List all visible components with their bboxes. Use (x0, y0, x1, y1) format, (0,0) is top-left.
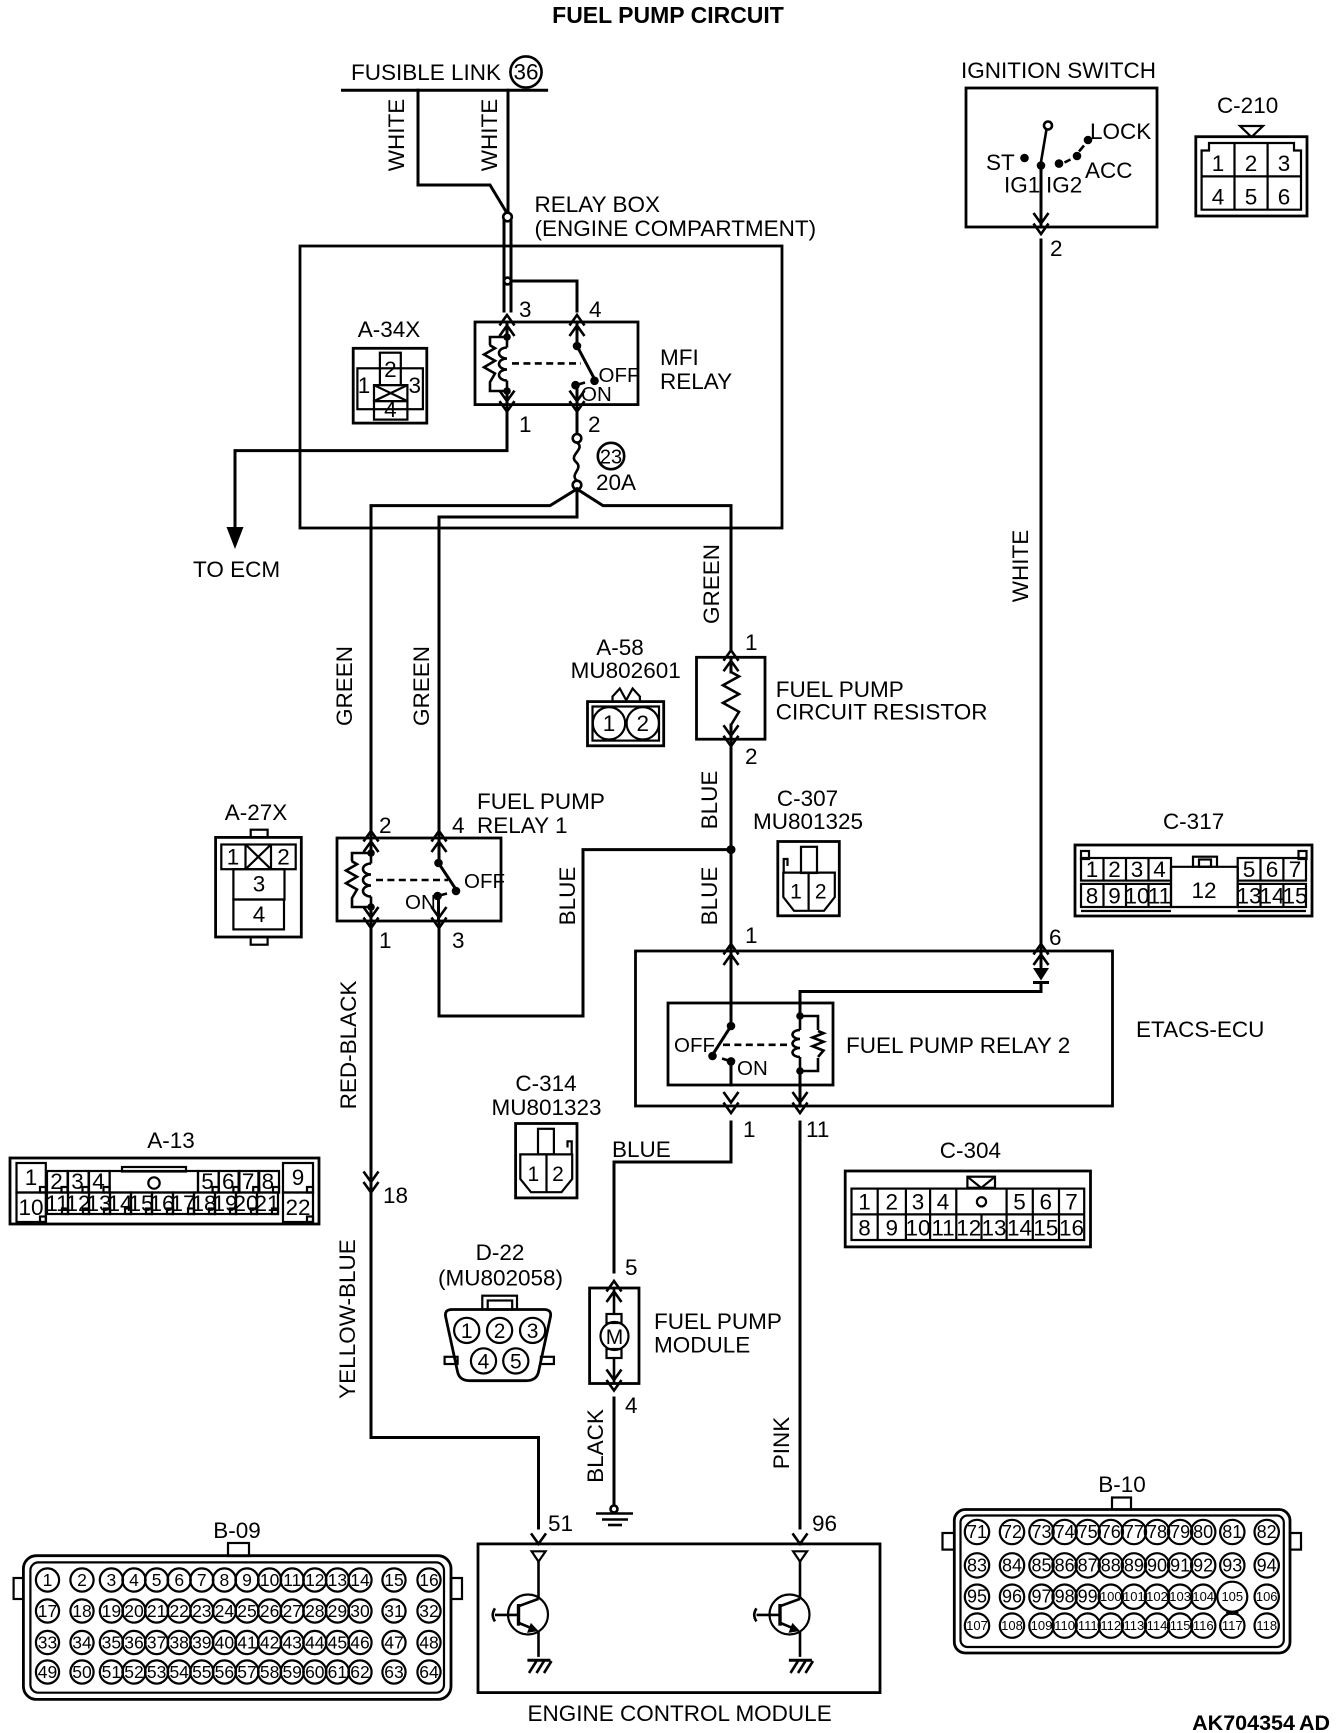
svg-text:1: 1 (745, 630, 758, 655)
ignition contact IG2 (1055, 159, 1064, 168)
svg-text:4: 4 (625, 1393, 638, 1418)
relay2 switch tick (722, 1059, 731, 1062)
MFI pin 3 chevrons (500, 315, 515, 336)
svg-text:32: 32 (419, 1601, 438, 1621)
svg-text:51: 51 (548, 1511, 573, 1536)
svg-text:2: 2 (588, 412, 601, 437)
svg-text:55: 55 (192, 1662, 211, 1682)
svg-text:2: 2 (277, 845, 290, 870)
svg-text:15: 15 (384, 1570, 403, 1590)
svg-text:79: 79 (1170, 1522, 1190, 1542)
svg-text:C-210: C-210 (1217, 93, 1278, 118)
MFI pin 1 chevrons (500, 391, 515, 412)
svg-text:AK704354AD: AK704354AD (1192, 1711, 1330, 1733)
svg-text:12: 12 (956, 1216, 981, 1241)
svg-text:A-27X: A-27X (225, 800, 288, 825)
ignition contact LOCK (1084, 136, 1093, 145)
svg-text:2: 2 (886, 1190, 899, 1215)
svg-text:3: 3 (1131, 857, 1144, 882)
svg-text:BLUE: BLUE (612, 1137, 671, 1162)
svg-text:13: 13 (1236, 884, 1261, 909)
svg-text:45: 45 (328, 1633, 347, 1653)
svg-text:19: 19 (102, 1601, 121, 1621)
MFI switch tick (576, 383, 586, 386)
svg-text:LOCK: LOCK (1090, 119, 1151, 144)
svg-text:2: 2 (1050, 236, 1063, 261)
svg-text:50: 50 (72, 1662, 92, 1682)
svg-text:54: 54 (169, 1662, 189, 1682)
relay1 resistor (352, 853, 371, 861)
svg-text:90: 90 (1147, 1555, 1167, 1575)
svg-text:47: 47 (384, 1633, 403, 1653)
svg-text:99: 99 (1078, 1587, 1098, 1607)
connector A-27X (216, 800, 302, 945)
svg-text:7: 7 (1289, 857, 1302, 882)
junction bullet on bus (504, 278, 511, 285)
svg-text:1: 1 (43, 1570, 53, 1590)
svg-text:17: 17 (38, 1601, 57, 1621)
svg-text:(ENGINE COMPARTMENT): (ENGINE COMPARTMENT) (535, 216, 817, 241)
relay1 box (337, 838, 501, 921)
svg-text:WHITE: WHITE (384, 99, 409, 172)
svg-text:24: 24 (215, 1601, 235, 1621)
svg-text:M: M (606, 1326, 624, 1349)
relay1 coil junction dots (367, 849, 375, 857)
svg-text:3: 3 (1278, 151, 1291, 176)
fuel pump circuit resistor box (697, 657, 766, 739)
connector C-304 (845, 1138, 1090, 1247)
svg-text:8: 8 (858, 1216, 871, 1241)
svg-text:FUEL PUMP RELAY 2: FUEL PUMP RELAY 2 (846, 1033, 1070, 1058)
relay2 switch ON contact dot (727, 1057, 736, 1066)
connector C-314 (491, 1071, 601, 1198)
svg-text:14: 14 (1007, 1216, 1032, 1241)
svg-text:34: 34 (72, 1633, 92, 1653)
svg-text:A-13: A-13 (147, 1128, 195, 1153)
svg-text:92: 92 (1193, 1555, 1213, 1575)
svg-text:OFF: OFF (674, 1034, 715, 1057)
relay1 pin 4 chevrons (432, 831, 447, 852)
svg-text:16: 16 (1059, 1216, 1084, 1241)
svg-text:MFI: MFI (660, 345, 699, 370)
svg-text:13: 13 (981, 1216, 1006, 1241)
svg-text:GREEN: GREEN (409, 646, 434, 726)
svg-text:MU801325: MU801325 (753, 809, 863, 834)
wire black to ground (613, 1398, 616, 1506)
wire yellow-blue to ECM (371, 1438, 539, 1529)
double-line bus into MFI relay pin 3 (503, 222, 506, 312)
svg-text:9: 9 (886, 1216, 899, 1241)
svg-text:1: 1 (227, 845, 240, 870)
relay2 dashed actuation line (723, 1044, 791, 1047)
TO ECM arrowhead (227, 527, 244, 549)
relay1 switch ON contact dot (433, 892, 442, 901)
svg-text:84: 84 (1002, 1555, 1022, 1575)
relay2 coil junction dots (796, 1012, 804, 1020)
svg-text:B-09: B-09 (213, 1518, 261, 1543)
svg-text:76: 76 (1101, 1522, 1121, 1542)
svg-text:94: 94 (1257, 1555, 1277, 1575)
ignition rotor circle (1044, 122, 1052, 130)
svg-text:OFF: OFF (464, 870, 505, 893)
MFI pin 4 chevrons (570, 315, 585, 336)
svg-text:IGNITION SWITCH: IGNITION SWITCH (961, 58, 1156, 83)
svg-text:6: 6 (1278, 185, 1291, 210)
svg-text:7: 7 (1065, 1190, 1078, 1215)
svg-text:109: 109 (1031, 1618, 1053, 1633)
svg-text:35: 35 (102, 1633, 121, 1653)
svg-text:FUEL PUMP: FUEL PUMP (776, 677, 904, 702)
svg-text:56: 56 (215, 1662, 234, 1682)
svg-text:MODULE: MODULE (654, 1333, 750, 1358)
svg-text:10: 10 (905, 1216, 930, 1241)
svg-text:11: 11 (283, 1570, 301, 1590)
MFI switch common wire (576, 322, 579, 346)
svg-text:83: 83 (967, 1555, 987, 1575)
svg-text:2: 2 (637, 711, 650, 736)
relay2 coil wire to pin 11 (799, 1071, 802, 1106)
svg-text:4: 4 (589, 297, 602, 322)
svg-text:57: 57 (237, 1662, 256, 1682)
ECM pin 51 chevron (531, 1533, 546, 1544)
svg-text:(MU802058): (MU802058) (438, 1266, 563, 1291)
relay1 coil (370, 853, 373, 864)
connector A-13 (10, 1128, 319, 1224)
svg-text:5: 5 (152, 1570, 162, 1590)
svg-text:FUEL PUMP: FUEL PUMP (477, 789, 605, 814)
connector bullet at relay box feed (503, 213, 512, 222)
svg-text:5: 5 (1013, 1190, 1026, 1215)
MFI switch arm (577, 346, 595, 379)
engine control module box (478, 1544, 880, 1693)
svg-text:10: 10 (1124, 884, 1149, 909)
svg-text:61: 61 (328, 1662, 347, 1682)
fuse terminal bullet bottom (573, 481, 582, 490)
svg-text:78: 78 (1147, 1522, 1167, 1542)
svg-text:97: 97 (1031, 1587, 1051, 1607)
svg-text:15: 15 (1033, 1216, 1058, 1241)
fuel pump circuit resistor zigzag (730, 657, 733, 672)
svg-text:ON: ON (405, 891, 436, 914)
wire relay1 pin1 red-black (370, 921, 373, 1438)
svg-text:117: 117 (1222, 1618, 1243, 1633)
relay2 pin1 wire inside (730, 1061, 733, 1085)
svg-text:26: 26 (260, 1601, 279, 1621)
relay2 switch OFF contact dot (708, 1052, 717, 1061)
ignition contact ST (1020, 154, 1029, 163)
svg-text:1: 1 (379, 928, 392, 953)
svg-text:2: 2 (745, 744, 758, 769)
svg-text:6: 6 (1266, 857, 1279, 882)
svg-text:96: 96 (812, 1511, 837, 1536)
svg-text:4: 4 (129, 1570, 139, 1590)
wire Y-split middle branch (439, 489, 577, 838)
connector A-34X (353, 317, 427, 423)
svg-text:3: 3 (107, 1570, 117, 1590)
svg-text:1: 1 (790, 881, 802, 904)
svg-text:2: 2 (815, 881, 827, 904)
svg-text:4: 4 (1153, 857, 1166, 882)
svg-text:WHITE: WHITE (477, 99, 502, 172)
motor wire top (613, 1288, 616, 1314)
svg-text:RED-BLACK: RED-BLACK (336, 981, 361, 1110)
svg-text:1: 1 (745, 923, 758, 948)
relay1 switch common wire (438, 838, 441, 863)
svg-text:YELLOW-BLUE: YELLOW-BLUE (335, 1239, 360, 1399)
svg-text:29: 29 (328, 1601, 347, 1621)
svg-text:1: 1 (461, 1320, 473, 1343)
svg-text:16: 16 (419, 1570, 438, 1590)
svg-text:MU802601: MU802601 (571, 658, 681, 683)
svg-text:6: 6 (1040, 1190, 1053, 1215)
svg-text:80: 80 (1193, 1522, 1213, 1542)
svg-text:1: 1 (1086, 857, 1099, 882)
svg-text:102: 102 (1146, 1589, 1168, 1604)
svg-text:18: 18 (383, 1183, 408, 1208)
ETACS pin 1 out chevrons (724, 1092, 739, 1113)
ignition detent tick 1 (1079, 146, 1084, 152)
svg-text:36: 36 (513, 60, 538, 85)
svg-text:21: 21 (147, 1601, 166, 1621)
MFI dashed actuation line (512, 362, 581, 365)
svg-text:108: 108 (1001, 1618, 1023, 1633)
ETACS pin 6 chevrons (1034, 944, 1049, 965)
ignition pin 2 chevrons (1034, 213, 1049, 234)
svg-text:37: 37 (147, 1633, 166, 1653)
svg-text:A-34X: A-34X (358, 317, 421, 342)
svg-text:GREEN: GREEN (332, 646, 357, 726)
fuel pump module box (590, 1288, 639, 1384)
svg-text:110: 110 (1054, 1618, 1075, 1633)
svg-text:14: 14 (1259, 884, 1284, 909)
svg-text:6: 6 (174, 1570, 184, 1590)
svg-text:100: 100 (1100, 1589, 1122, 1604)
MFI switch ON contact dot (571, 381, 580, 390)
relay2 switch arm (714, 1026, 731, 1053)
connector D-22 (438, 1240, 563, 1381)
svg-text:5: 5 (625, 1255, 638, 1280)
svg-text:31: 31 (384, 1601, 403, 1621)
svg-text:10: 10 (260, 1570, 280, 1590)
svg-text:36: 36 (124, 1633, 143, 1653)
ETACS pin 11 chevrons (793, 1092, 808, 1113)
svg-text:96: 96 (1002, 1587, 1022, 1607)
svg-text:D-22: D-22 (476, 1240, 525, 1265)
svg-text:BLUE: BLUE (555, 867, 580, 926)
svg-text:104: 104 (1192, 1589, 1214, 1604)
svg-text:3: 3 (527, 1320, 539, 1343)
relay1 coil wire (370, 838, 373, 853)
svg-text:86: 86 (1055, 1555, 1075, 1575)
module pin 4 chevrons (607, 1370, 622, 1391)
svg-text:89: 89 (1124, 1555, 1144, 1575)
transistor Q2 (754, 1551, 813, 1673)
svg-text:40: 40 (215, 1633, 235, 1653)
svg-text:4: 4 (937, 1190, 950, 1215)
svg-text:111: 111 (1078, 1618, 1098, 1633)
connector A-58 (571, 635, 681, 746)
svg-text:WHITE: WHITE (1008, 530, 1033, 603)
svg-text:105: 105 (1221, 1589, 1243, 1604)
svg-text:1: 1 (603, 711, 616, 736)
relay box (engine compartment) outline (300, 246, 782, 528)
svg-text:IG1: IG1 (1004, 173, 1040, 198)
svg-text:23: 23 (192, 1601, 211, 1621)
svg-text:46: 46 (350, 1633, 369, 1653)
relay1 pin 1 chevrons (364, 907, 379, 928)
svg-text:82: 82 (1257, 1522, 1277, 1542)
wire branch to MFI pin 4 (511, 281, 577, 311)
MFI relay resistor (490, 337, 507, 345)
svg-text:2: 2 (552, 1163, 564, 1186)
svg-text:4: 4 (478, 1350, 490, 1373)
MFI coil junction dots (503, 333, 511, 341)
wire white ignition to etacs (1040, 240, 1043, 951)
svg-text:52: 52 (124, 1662, 143, 1682)
svg-text:9: 9 (1108, 884, 1121, 909)
svg-text:14: 14 (350, 1570, 370, 1590)
svg-text:3: 3 (409, 373, 422, 398)
svg-text:39: 39 (192, 1633, 211, 1653)
svg-text:73: 73 (1031, 1522, 1051, 1542)
motor brush top (607, 1314, 622, 1323)
svg-text:20: 20 (124, 1601, 144, 1621)
svg-text:FUEL PUMP CIRCUIT: FUEL PUMP CIRCUIT (552, 2, 784, 28)
svg-text:59: 59 (282, 1662, 301, 1682)
svg-text:MU801323: MU801323 (491, 1095, 601, 1120)
svg-text:77: 77 (1124, 1522, 1144, 1542)
svg-text:TO ECM: TO ECM (193, 557, 280, 582)
svg-text:1: 1 (743, 1117, 756, 1142)
wire pink etacs pin11 to ECM (799, 1122, 802, 1528)
svg-text:RELAY 1: RELAY 1 (477, 813, 567, 838)
svg-text:62: 62 (350, 1662, 369, 1682)
relay1 pin 2 chevrons (364, 831, 379, 852)
MFI relay coil (506, 337, 509, 348)
svg-text:72: 72 (1002, 1522, 1022, 1542)
resistor pin 2 chevrons (724, 725, 739, 746)
svg-text:28: 28 (305, 1601, 324, 1621)
svg-text:1: 1 (528, 1163, 540, 1186)
ignition switch box (966, 88, 1157, 227)
svg-text:5: 5 (1245, 185, 1258, 210)
svg-text:74: 74 (1055, 1522, 1075, 1542)
svg-text:C-307: C-307 (777, 786, 838, 811)
ETACS-ECU box (636, 951, 1113, 1106)
svg-text:4: 4 (253, 902, 266, 927)
svg-text:112: 112 (1100, 1618, 1121, 1633)
svg-text:42: 42 (260, 1633, 279, 1653)
svg-text:93: 93 (1222, 1555, 1242, 1575)
svg-text:1: 1 (519, 412, 532, 437)
wire Y-split left branch (371, 489, 577, 838)
svg-text:49: 49 (38, 1662, 57, 1682)
wire MFI pin1 to ECM line (235, 405, 507, 532)
svg-text:ON: ON (581, 383, 612, 406)
svg-text:53: 53 (147, 1662, 166, 1682)
ignition output wire (1040, 166, 1043, 228)
svg-text:60: 60 (305, 1662, 325, 1682)
ignition detent tick 2 (1065, 160, 1071, 163)
wire white left vertical (418, 90, 508, 214)
relay1 pin 3 chevrons (432, 907, 447, 928)
wire Y-split right branch (577, 489, 731, 650)
motor brush bottom (607, 1349, 622, 1358)
junction dot blue node (727, 845, 736, 854)
svg-text:ENGINE CONTROL MODULE: ENGINE CONTROL MODULE (528, 1701, 832, 1726)
svg-text:58: 58 (260, 1662, 279, 1682)
connector B-10 (943, 1472, 1302, 1653)
svg-text:11: 11 (931, 1216, 954, 1241)
svg-text:21: 21 (254, 1191, 279, 1216)
svg-text:15: 15 (1282, 884, 1307, 909)
svg-text:8: 8 (220, 1570, 230, 1590)
svg-text:30: 30 (350, 1601, 370, 1621)
relay2 switch common dot (727, 1022, 736, 1031)
svg-text:106: 106 (1256, 1589, 1278, 1604)
svg-text:CIRCUIT RESISTOR: CIRCUIT RESISTOR (776, 700, 988, 725)
svg-text:B-10: B-10 (1098, 1472, 1146, 1497)
svg-text:63: 63 (384, 1662, 403, 1682)
svg-text:2: 2 (379, 813, 392, 838)
svg-text:11: 11 (1148, 884, 1171, 909)
svg-text:9: 9 (242, 1570, 252, 1590)
MFI switch common dot (573, 342, 582, 351)
MFI pin 2 chevrons (570, 391, 585, 412)
svg-text:C-314: C-314 (515, 1071, 576, 1096)
svg-text:RELAY BOX: RELAY BOX (535, 192, 660, 217)
module pin 5 chevrons (607, 1281, 622, 1302)
svg-text:38: 38 (169, 1633, 188, 1653)
svg-text:BLACK: BLACK (583, 1409, 608, 1483)
wire resistor to junction blue (730, 739, 733, 951)
svg-text:118: 118 (1256, 1618, 1277, 1633)
svg-text:ACC: ACC (1085, 158, 1133, 183)
connector C-307 (753, 786, 863, 916)
connector C-317 (1075, 809, 1312, 916)
svg-text:PINK: PINK (769, 1417, 794, 1470)
svg-text:101: 101 (1123, 1589, 1145, 1604)
svg-text:64: 64 (419, 1662, 439, 1682)
svg-text:A-58: A-58 (596, 635, 644, 660)
wire diode to relay2 coil (1040, 961, 1043, 968)
svg-text:88: 88 (1101, 1555, 1121, 1575)
ignition pivot dot IG1 (1037, 161, 1046, 170)
svg-text:8: 8 (1086, 884, 1099, 909)
relay1 pin3 wire inside (437, 896, 440, 921)
relay2 coil (799, 1016, 802, 1030)
svg-text:3: 3 (253, 872, 266, 897)
svg-text:ST: ST (986, 150, 1015, 175)
resistor pin 1 chevrons (724, 650, 739, 671)
svg-text:51: 51 (102, 1662, 121, 1682)
svg-text:GREEN: GREEN (699, 544, 724, 624)
fusible link circle 36 (510, 56, 541, 87)
diode D1 (1033, 968, 1049, 981)
svg-text:BLUE: BLUE (697, 867, 722, 926)
svg-text:75: 75 (1078, 1522, 1098, 1542)
svg-text:11: 11 (806, 1117, 829, 1142)
svg-text:2: 2 (77, 1570, 87, 1590)
svg-text:9: 9 (292, 1165, 305, 1190)
svg-text:7: 7 (197, 1570, 207, 1590)
svg-text:12: 12 (305, 1570, 324, 1590)
svg-text:95: 95 (967, 1587, 987, 1607)
svg-text:87: 87 (1078, 1555, 1098, 1575)
relay1 switch common dot (434, 859, 443, 868)
svg-text:115: 115 (1170, 1618, 1191, 1633)
wire etacs pin1 to relay2 (730, 951, 733, 1026)
